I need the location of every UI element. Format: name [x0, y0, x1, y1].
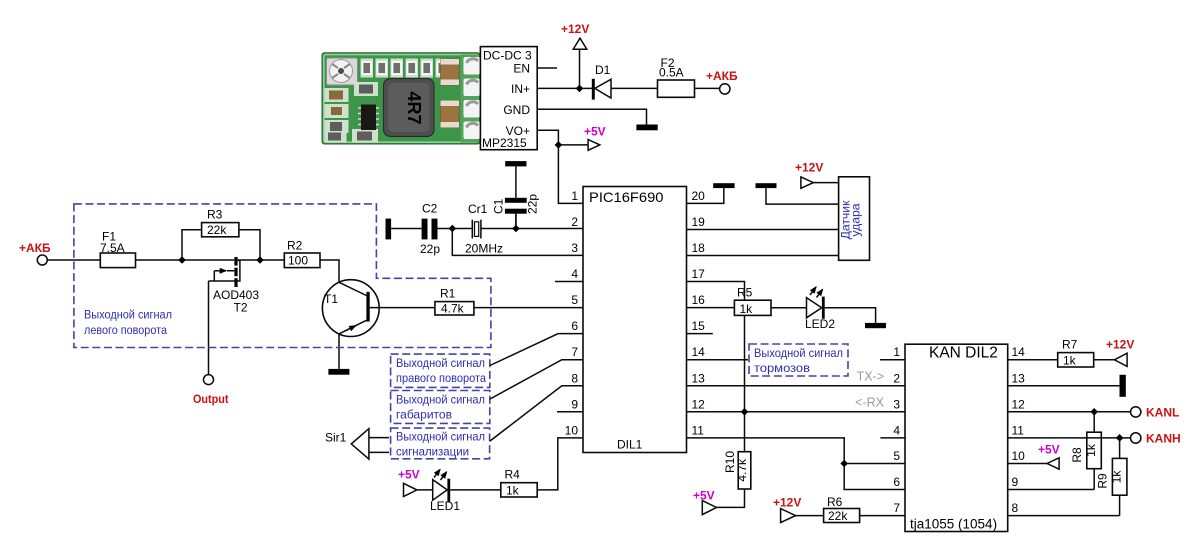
wire junction down to PIC pin 3	[452, 229, 583, 256]
svg-text:22k: 22k	[828, 509, 848, 523]
svg-text:+12V: +12V	[561, 22, 589, 36]
wire T1 base to R1	[370, 307, 435, 309]
svg-text:R6: R6	[827, 495, 843, 509]
KAN pin 4 stub	[880, 437, 905, 439]
svg-text:1k: 1k	[1084, 443, 1098, 457]
svg-text:габаритов: габаритов	[396, 408, 452, 422]
KAN pin 9 wire to R8	[1008, 489, 1094, 491]
MOSFET T2 AOD403	[234, 257, 237, 266]
svg-text:R1: R1	[440, 287, 456, 301]
IC U1 PIC16F690 box	[583, 187, 687, 453]
brake signal dashed label box	[749, 344, 848, 376]
ground (LED2)	[865, 323, 886, 328]
KAN pin 8 wire to R9	[1008, 515, 1120, 517]
svg-text:4.7k: 4.7k	[735, 458, 749, 482]
svg-text:1k: 1k	[740, 302, 754, 316]
+12V power symbol (R7)	[1114, 353, 1127, 366]
resistor R9 1k (vertical)	[1119, 438, 1121, 459]
pin 8 wire diagonal to alarm box	[490, 386, 583, 441]
ground above C1	[505, 161, 526, 166]
PIC right pin numbers 20-11	[692, 189, 706, 437]
node: crystal left junction	[449, 225, 457, 233]
svg-text:6: 6	[893, 475, 900, 489]
svg-text:LED1: LED1	[430, 499, 460, 513]
svg-text:D1: D1	[595, 63, 611, 77]
IC U2 KAN DIL2 box	[905, 344, 1008, 531]
svg-text:R3: R3	[207, 208, 223, 222]
svg-text:8: 8	[571, 371, 578, 385]
resistor R7 1k	[1058, 353, 1094, 367]
svg-text:GND: GND	[503, 103, 530, 117]
+5V power symbol (VO+)	[588, 140, 600, 151]
svg-text:7: 7	[571, 345, 578, 359]
svg-text:22k: 22k	[207, 223, 227, 237]
svg-text:13: 13	[1012, 371, 1026, 385]
PIC left pin numbers 1-10	[565, 189, 579, 437]
wire T2 node to R2	[238, 259, 285, 261]
running lights dashed label box	[391, 391, 490, 424]
wire crystal to pin 2	[481, 213, 583, 229]
wire R5 to LED2	[771, 307, 807, 309]
wire +5V to LED1	[417, 489, 433, 491]
wire C2 to crystal	[438, 228, 473, 230]
svg-text:DIL1: DIL1	[617, 438, 643, 452]
svg-text:4: 4	[571, 267, 578, 281]
svg-text:Выходной сигнал: Выходной сигнал	[84, 308, 172, 322]
+5V power symbol (KAN pin 10)	[1047, 458, 1059, 469]
svg-text:11: 11	[692, 423, 705, 437]
svg-text:R4: R4	[505, 468, 521, 482]
ground (T1 emitter)	[328, 369, 349, 375]
wire R10 to +5V	[717, 489, 745, 507]
pin 14 wire	[687, 359, 749, 361]
node: crystal right / C1 junction	[512, 225, 520, 233]
svg-text:MP2315: MP2315	[482, 136, 527, 150]
LED1	[433, 480, 448, 501]
+12V power symbol (R6)	[781, 509, 796, 523]
svg-text:18: 18	[692, 241, 706, 255]
svg-text:12: 12	[1012, 397, 1026, 411]
wire +AKB to F1	[47, 259, 100, 261]
EN pin stub wire	[537, 67, 557, 69]
capacitor C1 22p	[505, 198, 527, 203]
svg-text:14: 14	[692, 345, 706, 359]
pin 19 wire to sensor	[687, 228, 839, 230]
wire gnd to C2	[391, 228, 422, 230]
siren Sir1	[351, 429, 369, 460]
wire F2 to +AKB terminal	[695, 87, 720, 89]
svg-text:11: 11	[1012, 423, 1025, 437]
svg-text:9: 9	[571, 397, 578, 411]
DC-DC block U3 box	[480, 47, 537, 150]
svg-text:22p: 22p	[420, 242, 440, 256]
svg-text:1k: 1k	[1110, 470, 1124, 484]
wire R7 to +12V	[1094, 359, 1115, 361]
svg-text:Выходной сигнал: Выходной сигнал	[754, 346, 843, 360]
KAN right pin numbers 14-8	[1012, 345, 1026, 515]
svg-text:правого поворота: правого поворота	[396, 371, 486, 385]
resistor R8 1k (vertical)	[1093, 412, 1095, 432]
terminal +AKB (left)	[37, 255, 47, 265]
resistor R6 22k	[824, 509, 860, 523]
svg-text:14: 14	[1012, 345, 1026, 359]
ground (KAN pin 13, vertical bar)	[1120, 375, 1126, 397]
SMD resistors row on module	[361, 59, 449, 78]
resistor R1 4.7k	[435, 302, 474, 315]
fuse F2 0.5A	[658, 80, 695, 97]
svg-text:10: 10	[1012, 449, 1026, 463]
ground (pin 20)	[713, 183, 734, 188]
VO+ wire	[537, 130, 588, 145]
+5V power symbol (R10)	[702, 501, 716, 515]
node: IN+ / +12V junction	[576, 85, 584, 93]
wire T2 source down to Output	[208, 281, 210, 375]
wire LED1 to R4	[450, 489, 501, 491]
svg-text:DC-DC 3: DC-DC 3	[483, 49, 532, 63]
svg-text:3: 3	[893, 397, 900, 411]
svg-text:22p: 22p	[526, 194, 540, 214]
diode D1	[592, 79, 595, 100]
left turn signal dashed outline	[74, 204, 491, 348]
svg-text:20: 20	[692, 189, 706, 203]
svg-text:+5V: +5V	[398, 468, 420, 482]
alarm signal dashed label box	[391, 428, 490, 459]
svg-text:16: 16	[692, 293, 706, 307]
pin 18 wire to sensor	[687, 255, 839, 257]
svg-text:<-RX: <-RX	[855, 396, 884, 410]
svg-text:1: 1	[571, 189, 578, 203]
GND pin wire	[537, 109, 646, 124]
wire R2 to T1 collector	[320, 260, 339, 282]
svg-text:15: 15	[692, 319, 706, 333]
svg-text:+12V: +12V	[1106, 338, 1134, 352]
transistor T1	[322, 280, 379, 337]
svg-text:IN+: IN+	[511, 82, 530, 96]
svg-text:Выходной сигнал: Выходной сигнал	[396, 356, 485, 370]
node: VO+ junction	[555, 141, 563, 149]
node: F1 / R3 junction	[178, 256, 186, 264]
svg-text:левого поворота: левого поворота	[84, 323, 167, 337]
pin 4 stub	[555, 281, 583, 283]
SOIC IC on module	[358, 108, 379, 125]
ground (DC-DC GND)	[636, 125, 657, 131]
svg-text:удара: удара	[848, 203, 862, 236]
svg-text:1: 1	[893, 345, 900, 359]
svg-text:100: 100	[288, 254, 308, 268]
wire R4 up to PIC pin 10	[537, 438, 583, 490]
shock sensor box (Датчик удара)	[839, 177, 870, 260]
svg-text:3: 3	[571, 241, 578, 255]
svg-text:7: 7	[893, 501, 900, 515]
svg-text:+АКБ: +АКБ	[19, 241, 51, 255]
svg-text:C1: C1	[492, 198, 506, 214]
svg-text:2: 2	[571, 215, 578, 229]
svg-text:+5V: +5V	[584, 125, 606, 139]
svg-text:+12V: +12V	[773, 496, 801, 510]
svg-text:10: 10	[565, 423, 579, 437]
LED2	[807, 298, 822, 318]
svg-text:12: 12	[692, 397, 706, 411]
svg-text:2: 2	[893, 371, 900, 385]
svg-text:R7: R7	[1062, 338, 1078, 352]
wire R1 to PIC pin 5	[474, 307, 583, 309]
svg-text:7.5A: 7.5A	[100, 241, 125, 255]
terminal KANL	[1131, 407, 1141, 417]
svg-text:EN: EN	[513, 62, 530, 76]
node: KANH / R9 junction	[1116, 434, 1124, 442]
pin 17 wire down the rail	[687, 282, 745, 301]
svg-text:сигнализации: сигнализации	[396, 445, 469, 459]
left column SMD pads on module	[325, 82, 379, 143]
svg-text:4.7k: 4.7k	[441, 301, 465, 315]
castellated pads on module edge	[464, 57, 481, 139]
ground (shock sensor)	[756, 183, 777, 188]
svg-text:6: 6	[571, 319, 578, 333]
svg-text:Cr1: Cr1	[468, 202, 488, 216]
KAN pin 10 wire to +5V	[1008, 463, 1047, 465]
pin 6 wire diagonal to right turn box	[490, 334, 583, 366]
svg-text:4: 4	[893, 423, 900, 437]
inductor 4R7 on module	[384, 79, 435, 137]
svg-text:20MHz: 20MHz	[465, 242, 503, 256]
wire VO+ junction down to PIC pin 1	[558, 145, 583, 204]
wire T1 emitter to ground	[338, 334, 340, 369]
tantalum capacitors on module	[441, 59, 460, 85]
capacitor C2 22p	[422, 219, 428, 240]
svg-text:5: 5	[893, 449, 900, 463]
wire R3 down to T2 drain node	[239, 230, 260, 260]
svg-text:+5V: +5V	[693, 489, 715, 503]
svg-text:PIC16F690: PIC16F690	[589, 189, 664, 205]
svg-text:1k: 1k	[506, 484, 520, 498]
terminal Output	[204, 375, 214, 385]
fuse F1 7.5A	[100, 253, 135, 268]
svg-text:5: 5	[571, 293, 578, 307]
svg-text:+АКБ: +АКБ	[706, 69, 738, 83]
DC-DC converter module photo (green PCB)	[322, 53, 480, 144]
pin 13 wire (TX) to KAN pin 2	[687, 385, 906, 387]
KAN pin 11 wire to KANH	[1008, 437, 1131, 439]
svg-text:tja1055 (1054): tja1055 (1054)	[910, 517, 997, 532]
terminal KANH	[1131, 433, 1141, 443]
+12V power symbol (top)	[579, 49, 581, 88]
node: R3 / R2 junction	[256, 256, 264, 264]
KAN pin 13 wire	[1008, 385, 1120, 387]
svg-text:4R7: 4R7	[404, 91, 424, 124]
svg-text:T2: T2	[234, 301, 248, 315]
wire +12V to R6	[796, 515, 824, 517]
svg-text:17: 17	[692, 267, 706, 281]
ground left of C2	[386, 219, 392, 240]
svg-text:KANL: KANL	[1146, 406, 1179, 420]
pin 7 wire diagonal to running lights box	[490, 360, 583, 399]
KAN pin 1 stub	[880, 359, 905, 361]
svg-text:Sir1: Sir1	[325, 431, 347, 445]
pin 15 stub	[687, 333, 713, 335]
pin 20 wire	[687, 188, 724, 203]
svg-text:+5V: +5V	[1038, 443, 1060, 457]
svg-text:KANH: KANH	[1146, 432, 1181, 446]
wire D1 to F2	[611, 87, 658, 89]
node: KANL / R8 junction	[1090, 408, 1098, 416]
svg-text:9: 9	[1012, 475, 1019, 489]
svg-text:19: 19	[692, 215, 706, 229]
wire F1 to T2	[136, 259, 235, 261]
svg-text:KAN DIL2: KAN DIL2	[929, 345, 998, 362]
KAN pin 14 wire	[1008, 359, 1058, 361]
svg-text:Выходной сигнал: Выходной сигнал	[396, 430, 485, 444]
wire R6 to KAN pin 7	[860, 515, 905, 517]
resistor R3 22k	[202, 223, 239, 237]
svg-text:Выходной сигнал: Выходной сигнал	[396, 393, 485, 407]
resistor R10 4.7k (vertical)	[738, 452, 751, 489]
pin 9 stub	[557, 411, 583, 413]
crystal Cr1 20MHz	[472, 220, 481, 239]
svg-text:8: 8	[1012, 501, 1019, 515]
wire LED2 to ground	[825, 308, 876, 323]
terminal +AKB (top)	[720, 84, 730, 94]
+5V power symbol (LED1)	[404, 483, 417, 496]
pin 11 wire to KAN pins 5,6	[687, 438, 906, 490]
+12V power symbol (shock sensor)	[801, 177, 813, 188]
svg-text:LED2: LED2	[805, 317, 835, 331]
svg-text:Output: Output	[193, 392, 229, 406]
wire junction up to R3	[182, 230, 202, 260]
svg-text:тормозов: тормозов	[754, 361, 810, 375]
svg-text:R5: R5	[737, 286, 753, 300]
KAN left pin numbers 1-7	[893, 345, 900, 515]
svg-text:13: 13	[692, 371, 706, 385]
trimmer potentiometer on module	[327, 58, 358, 85]
node: pin11 branch junction	[840, 460, 848, 468]
resistor R2 100	[284, 253, 320, 268]
svg-text:1k: 1k	[1063, 353, 1077, 367]
KAN pin 12 wire to KANL	[1008, 411, 1131, 413]
svg-text:+12V: +12V	[795, 161, 823, 175]
svg-text:C2: C2	[422, 202, 438, 216]
IN+ wire	[537, 87, 592, 89]
pin 16 wire	[687, 307, 735, 309]
pin 12 wire (RX) to KAN pin 3	[687, 411, 906, 413]
right turn signal dashed label box	[391, 354, 490, 387]
svg-text:R8: R8	[1070, 447, 1084, 463]
resistor R5 1k	[734, 300, 771, 315]
svg-text:TX->: TX->	[857, 370, 884, 384]
svg-text:Т1: Т1	[324, 292, 338, 306]
rail below R5 to R10	[744, 315, 746, 451]
svg-text:R9: R9	[1096, 473, 1110, 489]
svg-text:0.5A: 0.5A	[659, 66, 684, 80]
svg-text:R2: R2	[287, 239, 303, 253]
resistor R4 1k	[501, 483, 537, 497]
node: RX / rail junction	[741, 408, 749, 416]
